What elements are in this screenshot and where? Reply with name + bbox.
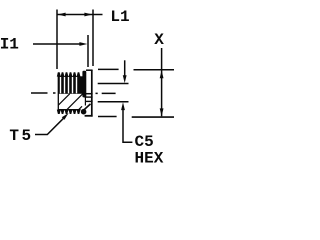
X dimension vertical [161, 48, 163, 116]
C5 leader vertical and elbow [123, 107, 132, 143]
small dimension down-arrow vertical [124, 60, 126, 79]
hex bottom band [85, 115, 93, 117]
svg-text:HEX: HEX [135, 149, 164, 167]
section left edge [57, 73, 59, 110]
svg-text:T5: T5 [9, 127, 33, 145]
svg-text:C5: C5 [135, 133, 154, 151]
T5 arrowhead [62, 113, 69, 120]
hex top extension line (left segment) [98, 68, 119, 70]
X arrow up [160, 70, 164, 78]
thread external view body [57, 72, 83, 94]
svg-text:X: X [154, 31, 164, 49]
X arrow down [160, 108, 164, 116]
I1 arrow [79, 42, 87, 46]
hex groove wall (section) [84, 97, 86, 105]
svg-text:L1: L1 [110, 8, 129, 26]
I1 leader line [33, 43, 80, 45]
I1 extension line [87, 35, 89, 67]
X dimension top line [134, 69, 175, 71]
thread crest peaks [57, 72, 61, 76]
hex interior line 3 [85, 100, 92, 102]
L1 arrow left [58, 13, 66, 17]
L1 extension line left [56, 10, 58, 70]
centerline left [31, 92, 56, 94]
hex head right edge [91, 70, 93, 117]
L1 arrow right [84, 13, 92, 17]
hex interior line at centerline [86, 93, 93, 95]
X dimension bottom line [132, 116, 174, 118]
hex bottom extension line (left segment) [98, 116, 117, 118]
thread teeth (section, bottom) [57, 110, 81, 114]
hex flat extension line lower [98, 101, 129, 103]
thread flank slots (white) [60, 77, 77, 93]
small dimension arrow down [123, 75, 127, 83]
centerline right [96, 92, 116, 94]
thread root line [58, 109, 80, 111]
svg-text:I1: I1 [0, 35, 19, 53]
C5 arrow up [121, 102, 125, 110]
O-ring section circle [81, 109, 87, 115]
L1 dimension line [58, 14, 103, 16]
O-ring external band [82, 71, 86, 98]
L1 extension line right [92, 10, 94, 67]
hex head top edge [86, 69, 93, 71]
hex chamfer diagonal (section) [84, 104, 90, 110]
hex interior line 2 [85, 96, 93, 98]
hex flat extension line upper [98, 83, 129, 85]
section hatch (thread zone) [58, 94, 82, 110]
T5 leader [35, 118, 64, 134]
